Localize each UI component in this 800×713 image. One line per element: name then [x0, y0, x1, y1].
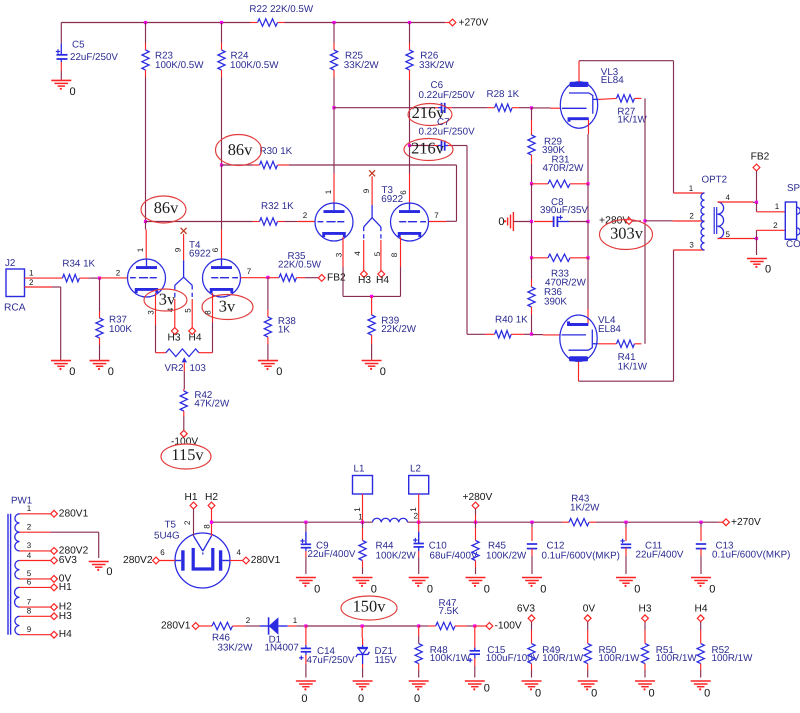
svg-text:0: 0 [484, 584, 490, 596]
capacitor C5 [56, 40, 119, 63]
ground C5 [51, 80, 75, 98]
port 6V3 (heater) [517, 604, 535, 622]
wire R47 to C15 node [455, 625, 475, 627]
wire T4L plate pin [136, 222, 146, 260]
ground PW1 pin2 [89, 562, 113, 578]
wire T4 heater pin4 to H3 [166, 299, 175, 328]
svg-text:R32 1K: R32 1K [261, 201, 294, 212]
voltage annotation 115v [161, 444, 211, 469]
port H4 (heater) [694, 604, 707, 622]
node junction C13 [699, 521, 702, 524]
svg-text:6922: 6922 [381, 194, 403, 205]
ground R52 [691, 681, 711, 700]
svg-text:115V: 115V [375, 655, 398, 666]
svg-text:1: 1 [775, 202, 780, 211]
port FB2 mid [318, 272, 346, 283]
potentiometer VR2 [165, 349, 207, 374]
wire top supply bus [61, 22, 449, 24]
label VL4 EL84 [598, 315, 621, 335]
port H4 (T4) [188, 328, 201, 344]
diode D1 [260, 617, 299, 653]
ground R48 [409, 681, 429, 705]
svg-text:H3: H3 [59, 611, 72, 622]
power port +270V bottom [723, 517, 761, 528]
capacitor C12 [527, 522, 620, 574]
node junction R48 [417, 624, 420, 627]
svg-text:33K/2W: 33K/2W [218, 643, 254, 654]
power port 0 (C8) [498, 212, 531, 231]
svg-text:4: 4 [236, 548, 241, 557]
resistor R35 [278, 251, 322, 282]
svg-text:FB2: FB2 [327, 272, 346, 283]
svg-text:100K: 100K [109, 324, 132, 335]
resistor R49 [528, 622, 584, 678]
svg-text:0: 0 [535, 688, 541, 700]
wire L2 box lead [409, 494, 419, 522]
wire VL4 g2 to R41 [598, 343, 616, 345]
svg-text:103: 103 [190, 363, 207, 374]
node junction FB2 [755, 201, 758, 204]
transformer OPT2 label [702, 174, 728, 185]
svg-text:115v: 115v [171, 445, 204, 464]
svg-text:2: 2 [29, 278, 34, 287]
svg-text:1K/1W: 1K/1W [617, 114, 647, 125]
wire PW1 pin 3 [20, 541, 89, 556]
capacitor C11 [620, 522, 683, 574]
svg-text:216v: 216v [411, 139, 445, 158]
svg-text:J2: J2 [5, 258, 15, 269]
wire T3R plate pin [399, 146, 410, 204]
ground R38 [258, 361, 282, 379]
wire C7 to VL4 grid column [448, 146, 467, 335]
svg-text:0: 0 [634, 584, 640, 596]
svg-text:H4: H4 [694, 604, 707, 615]
wire R40 to junction [511, 333, 531, 335]
svg-text:100K/0.5W: 100K/0.5W [155, 60, 204, 71]
svg-text:1: 1 [29, 268, 34, 277]
svg-text:+270V: +270V [459, 18, 489, 29]
svg-text:T5: T5 [165, 519, 177, 530]
pentode VL3 [560, 82, 598, 128]
svg-text:280V1: 280V1 [161, 621, 191, 632]
ground J2 pin2 [51, 361, 75, 379]
voltage annotation 216v upper [408, 103, 452, 125]
node junction R38 top [266, 276, 269, 279]
port 280V2 (T5 pin6) [123, 548, 175, 566]
svg-text:-100V: -100V [495, 621, 522, 632]
svg-text:EL84: EL84 [598, 324, 621, 335]
ground R49 [522, 681, 542, 700]
node junction L2 [417, 521, 420, 524]
svg-text:3v: 3v [219, 296, 236, 315]
node junction R31 left [530, 182, 533, 185]
svg-text:303v: 303v [610, 224, 644, 243]
triode T3 right half [391, 203, 440, 241]
svg-text:H1: H1 [184, 492, 197, 503]
svg-text:R40 1K: R40 1K [495, 315, 528, 326]
wire B+ bus left [212, 521, 373, 523]
svg-text:0: 0 [498, 216, 504, 228]
svg-text:4: 4 [353, 251, 362, 256]
svg-text:47K/2W: 47K/2W [194, 398, 230, 409]
wire T4L cathode to VR2 [156, 352, 166, 354]
connector SPH [785, 183, 800, 250]
power port +270V top [449, 18, 488, 29]
svg-text:22uF/400V: 22uF/400V [636, 550, 684, 561]
svg-text:R34 1K: R34 1K [62, 258, 95, 269]
port H3 (heater) [638, 604, 651, 622]
svg-text:47uF/250V: 47uF/250V [307, 655, 355, 666]
wire L1 box lead [353, 494, 363, 522]
wire J2 pin2 [25, 278, 61, 360]
wire T4 heater pin5 to H4 [184, 299, 193, 328]
node junction top R25 [332, 21, 335, 24]
ground R44 [353, 578, 377, 596]
svg-text:0.22uF/250V: 0.22uF/250V [419, 90, 476, 101]
svg-text:RCA: RCA [4, 302, 26, 313]
node junction C9 [304, 521, 307, 524]
svg-text:22K/2W: 22K/2W [381, 324, 417, 335]
svg-text:1: 1 [293, 616, 298, 625]
resistor R41 [617, 340, 648, 372]
svg-text:8: 8 [390, 252, 399, 257]
svg-text:0: 0 [358, 693, 364, 705]
label T4 6922 [189, 240, 211, 259]
svg-text:2: 2 [116, 268, 121, 277]
svg-text:R30 1K: R30 1K [260, 146, 293, 157]
svg-text:0.22uF/250V: 0.22uF/250V [419, 127, 476, 138]
svg-text:22K/0.5W: 22K/0.5W [278, 260, 322, 271]
ground R39 [362, 361, 386, 379]
wire to VL4 grid [532, 334, 561, 336]
triode T4 right half [203, 259, 241, 297]
node junction L1 [361, 521, 364, 524]
resistor R37 [96, 278, 132, 360]
resistor R42 [180, 389, 230, 430]
wire T3L cathode [335, 237, 344, 296]
svg-text:100R/1W: 100R/1W [656, 653, 698, 664]
resistor R48 [415, 626, 471, 678]
node junction C15 [473, 624, 476, 627]
resistor R32 [260, 201, 295, 225]
wire VR2 wiper [183, 362, 185, 389]
svg-text:0: 0 [276, 366, 282, 378]
node junction +280V [643, 219, 646, 222]
svg-text:0: 0 [765, 263, 771, 275]
resistor R36 [528, 258, 567, 335]
svg-text:0: 0 [484, 683, 490, 695]
svg-text:H3: H3 [638, 604, 651, 615]
svg-text:H3: H3 [167, 332, 180, 343]
wire PW1 pin 1 [20, 504, 89, 519]
label VL3 EL84 [601, 67, 624, 86]
wire T3L plate to C6 [334, 107, 438, 109]
svg-text:+270V: +270V [731, 517, 761, 528]
ground C13 [691, 578, 715, 596]
wire R30 left [222, 164, 260, 166]
svg-text:H4: H4 [188, 332, 201, 343]
node junction top R26 [408, 21, 411, 24]
node junction T4R plate [220, 163, 223, 166]
node junction R39 top [370, 295, 373, 298]
svg-text:0: 0 [106, 566, 112, 578]
svg-text:100R/1W: 100R/1W [599, 653, 641, 664]
svg-text:0: 0 [709, 584, 715, 596]
svg-text:1K/1W: 1K/1W [618, 362, 648, 373]
wire B+ bus right [589, 521, 723, 523]
svg-text:33K/2W: 33K/2W [344, 60, 380, 71]
svg-text:100K/1W: 100K/1W [430, 653, 471, 664]
svg-text:100R/1W: 100R/1W [712, 653, 754, 664]
svg-text:3: 3 [146, 310, 155, 315]
svg-text:1: 1 [136, 247, 145, 252]
svg-text:2: 2 [183, 520, 192, 525]
svg-text:6: 6 [27, 578, 32, 587]
node junction +280V bus [474, 521, 477, 524]
wire OPT sec top to SPH pin1 [718, 193, 757, 202]
ground C10 [409, 578, 433, 596]
svg-text:0: 0 [371, 584, 377, 596]
zener diode DZ1 [356, 626, 397, 678]
port H2 (T5) [205, 492, 218, 509]
wire R27 to +280V rail [635, 98, 646, 220]
node junction VL3 grid [530, 106, 533, 109]
svg-text:0: 0 [380, 366, 386, 378]
wire neg rail [306, 625, 419, 627]
capacitor C7 [419, 117, 476, 151]
capacitor C10 [413, 522, 478, 574]
svg-text:1: 1 [353, 507, 362, 512]
wire PW1 pin 8 [20, 607, 73, 622]
wire T4R cathode [203, 293, 212, 353]
svg-text:9: 9 [173, 247, 182, 252]
resistor R23 [142, 23, 204, 78]
wire R30 to T3R grid [278, 165, 457, 222]
wire R24 to R30 node [221, 77, 223, 165]
wire ground bus C8-R33 [532, 222, 589, 258]
voltage annotation 3v left [144, 289, 187, 311]
ground C9 [296, 578, 320, 596]
node junction C14 [304, 624, 307, 627]
resistor R47 [436, 598, 459, 630]
wire PW1 pin 4 [20, 551, 78, 566]
svg-text:390K: 390K [544, 297, 567, 308]
port -100V bottom [486, 621, 522, 632]
resistor R38 [264, 277, 296, 360]
svg-text:9: 9 [27, 625, 32, 634]
resistor R29 [528, 108, 565, 184]
resistor R27 [617, 95, 648, 126]
wire B+ bus mid [408, 521, 570, 523]
resistor R52 [697, 622, 753, 678]
wire VL3 grid node to grid [532, 107, 561, 109]
wire T3R cathode [390, 237, 401, 296]
pentode VL4 [560, 315, 598, 361]
svg-text:22uF/250V: 22uF/250V [70, 52, 118, 63]
capacitor C8 [534, 197, 588, 227]
wire R32 to T3L grid [278, 221, 316, 223]
label T3 6922 [381, 185, 403, 205]
capacitor C6 [419, 80, 476, 113]
node junction C8 left [530, 220, 533, 223]
wire to SPH pin2 [757, 221, 786, 238]
wire sec bottom to ground [756, 239, 758, 256]
ground C14 [296, 681, 316, 705]
resistor R33 [532, 254, 589, 288]
ground R51 [635, 681, 655, 700]
svg-text:100K/2W: 100K/2W [376, 551, 417, 562]
power port +280V [599, 216, 641, 227]
ground R50 [578, 681, 598, 700]
port 0V (heater) [583, 604, 596, 622]
node junction C8 right [586, 220, 589, 223]
svg-text:0: 0 [314, 584, 320, 596]
svg-text:7: 7 [247, 267, 252, 276]
port 280V1 (rectifier) [161, 621, 212, 632]
svg-text:2: 2 [27, 523, 32, 532]
svg-text:4: 4 [27, 551, 32, 560]
ground C12 [522, 578, 546, 596]
transformer OPT2 primary [701, 193, 705, 250]
svg-text:H4: H4 [376, 275, 389, 286]
triode T3 left half [303, 203, 353, 241]
inductor L2 box [409, 463, 429, 494]
ground DZ1 [353, 681, 373, 705]
svg-text:0: 0 [108, 366, 114, 378]
resistor R39 [368, 296, 417, 359]
capacitor C9 [300, 522, 356, 574]
capacitor C13 [696, 522, 791, 574]
wire T3 heater pin5 to H4 [373, 240, 382, 271]
svg-text:3v: 3v [159, 290, 176, 309]
wire C15 node to port [475, 625, 486, 627]
port H4 (T3) [376, 271, 389, 286]
svg-text:6V3: 6V3 [59, 555, 77, 566]
node junction T3L plate [332, 106, 335, 109]
inductor L1 box [353, 463, 373, 494]
resistor R30 [260, 146, 293, 169]
svg-text:8: 8 [203, 310, 212, 315]
voltage annotation 86v upper [216, 135, 262, 166]
wire T3L plate pin [324, 108, 334, 203]
wire C5 to ground [60, 59, 62, 80]
svg-text:100R/1W: 100R/1W [542, 653, 584, 664]
wire to R35 [268, 277, 279, 279]
svg-text:H3: H3 [358, 275, 371, 286]
svg-text:7.5K: 7.5K [439, 606, 460, 617]
ground OPT secondary [747, 259, 771, 276]
svg-text:4: 4 [725, 193, 730, 202]
resistor R22 [249, 4, 313, 26]
svg-text:3: 3 [27, 541, 32, 550]
wire T4R plate pin [211, 165, 222, 259]
port -100V (R42) [171, 430, 198, 447]
transformer PW1 label [11, 495, 32, 506]
inductor choke L1-L2 [358, 511, 418, 522]
heater T3 [362, 176, 381, 240]
svg-text:R22 22K/0.5W: R22 22K/0.5W [249, 4, 313, 15]
node junction R33 left [530, 256, 533, 259]
wire PW1 pin 7 [20, 597, 73, 612]
svg-text:7: 7 [434, 211, 439, 220]
node junction DZ1 [361, 624, 364, 627]
svg-text:L1: L1 [354, 463, 365, 474]
svg-text:6: 6 [160, 548, 165, 557]
svg-text:3: 3 [335, 252, 344, 257]
wire cathode bus R33-VL4 [587, 258, 589, 325]
port FB2 top [751, 152, 770, 203]
svg-text:C5: C5 [72, 40, 85, 51]
wire VL4 plate to OPT pin3 [579, 241, 705, 382]
wire H2 to T5 pin8 [202, 509, 211, 536]
svg-text:0: 0 [540, 584, 546, 596]
wire C7 column to R40 [467, 333, 495, 335]
node junction C12 [530, 521, 533, 524]
svg-text:5: 5 [373, 251, 382, 256]
svg-text:2: 2 [246, 616, 251, 625]
node junction R37 top [98, 277, 101, 280]
resistor R50 [584, 622, 640, 678]
wire R32 left [146, 221, 260, 223]
voltage annotation 3v right [202, 295, 253, 320]
svg-text:0: 0 [591, 688, 597, 700]
svg-text:2: 2 [303, 211, 308, 220]
svg-text:L2: L2 [410, 463, 421, 474]
wire R46 to D1 [233, 616, 261, 626]
ground C11 [616, 578, 640, 596]
svg-text:3: 3 [689, 241, 694, 250]
svg-text:+280V: +280V [463, 492, 493, 503]
svg-text:SPH: SPH [787, 183, 800, 194]
svg-text:150v: 150v [353, 597, 387, 616]
wire PW1 pin 9 [20, 625, 73, 640]
svg-text:1N4007: 1N4007 [265, 643, 299, 654]
svg-text:33K/2W: 33K/2W [419, 60, 455, 71]
svg-text:2: 2 [773, 221, 778, 230]
svg-text:8: 8 [202, 524, 211, 529]
svg-text:0: 0 [70, 86, 76, 98]
wire VL3 plate to OPT pin1 [579, 61, 705, 193]
svg-text:H1: H1 [59, 582, 72, 593]
svg-text:EL84: EL84 [601, 75, 624, 86]
voltage annotation 303v [600, 220, 653, 250]
wire R34 to grid node [79, 277, 99, 279]
svg-text:390uF/35V: 390uF/35V [540, 205, 588, 216]
wire R41 to +280V rail [635, 221, 646, 344]
svg-text:0.1uF/600V(MKP): 0.1uF/600V(MKP) [542, 551, 620, 562]
wire VR2 right to T4R cathode [199, 352, 213, 354]
resistor R46 [212, 622, 253, 653]
capacitor C15 [468, 626, 540, 678]
wire R35 to FB2 [297, 277, 319, 279]
svg-text:OPT2: OPT2 [702, 174, 728, 185]
svg-text:FB2: FB2 [751, 152, 770, 163]
rectifier tube T5 [175, 533, 230, 588]
resistor R28 [487, 89, 520, 111]
svg-text:6V3: 6V3 [517, 604, 535, 615]
svg-text:1: 1 [689, 184, 694, 193]
svg-text:1K: 1K [278, 325, 290, 336]
wire R25 to C6 node [333, 77, 335, 108]
port H3 (T4) [167, 328, 180, 344]
svg-text:280V2: 280V2 [123, 555, 153, 566]
transformer OPT2 core [714, 207, 717, 234]
resistor R44 [359, 522, 417, 574]
svg-text:6: 6 [211, 247, 220, 252]
resistor R25 [330, 23, 379, 78]
svg-text:5: 5 [725, 230, 730, 239]
wire C5 to bus [60, 23, 62, 55]
